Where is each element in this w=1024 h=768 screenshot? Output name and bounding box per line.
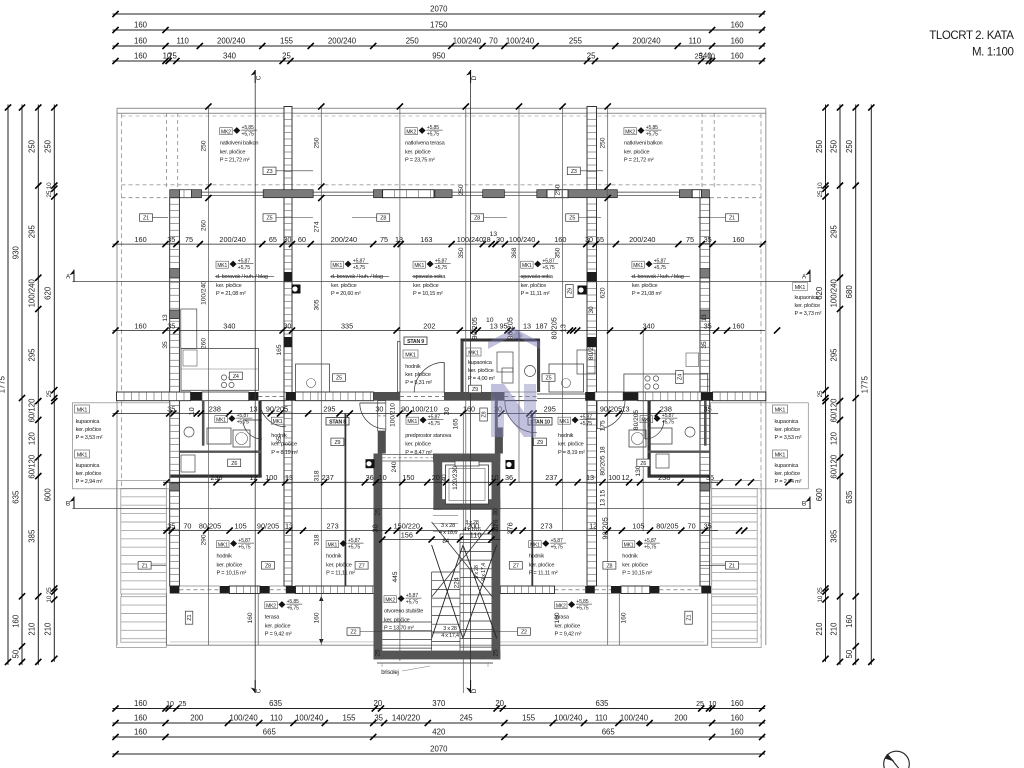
- svg-text:MK1: MK1: [407, 419, 417, 425]
- svg-text:Z1: Z1: [687, 615, 693, 621]
- svg-text:P = 8,19 m²: P = 8,19 m²: [271, 450, 298, 456]
- svg-text:90/205: 90/205: [257, 521, 279, 530]
- svg-text:245: 245: [460, 714, 474, 723]
- svg-text:+5,87: +5,87: [551, 538, 563, 544]
- svg-text:160: 160: [845, 614, 854, 628]
- axis line x608: [605, 103, 611, 645]
- svg-text:100: 100: [265, 473, 277, 482]
- south exterior wall: [170, 586, 711, 594]
- svg-text:+5,75: +5,75: [646, 132, 658, 138]
- svg-text:+5,87: +5,87: [644, 538, 656, 544]
- svg-text:620: 620: [44, 286, 53, 300]
- svg-text:+5,87: +5,87: [237, 413, 249, 419]
- svg-text:160: 160: [134, 714, 148, 723]
- svg-text:160: 160: [731, 714, 745, 723]
- svg-text:370: 370: [432, 699, 446, 708]
- svg-text:295: 295: [323, 404, 335, 413]
- left vertical chain 4 (250,10,25,620...): [44, 104, 58, 662]
- svg-text:MK2: MK2: [406, 129, 416, 135]
- door arc left unit terrace door: [260, 401, 286, 427]
- svg-text:MK1: MK1: [530, 542, 540, 548]
- north arrow symbol: [884, 751, 910, 768]
- svg-text:M. 1:100: M. 1:100: [972, 47, 1014, 59]
- svg-text:35: 35: [167, 404, 175, 413]
- bottom dimension chain row 4 (2070): [112, 745, 765, 758]
- svg-text:kupaonica: kupaonica: [76, 419, 101, 425]
- svg-text:P = 21,08 m²: P = 21,08 m²: [632, 291, 662, 297]
- svg-text:ker. pločice: ker. pločice: [529, 563, 555, 569]
- svg-text:75: 75: [380, 235, 388, 244]
- svg-text:200: 200: [190, 714, 204, 723]
- svg-text:Z1: Z1: [729, 563, 735, 569]
- svg-text:+5,75: +5,75: [287, 606, 299, 612]
- svg-text:ker. pločice: ker. pločice: [775, 471, 801, 477]
- svg-text:255: 255: [569, 37, 583, 46]
- svg-text:165: 165: [276, 344, 283, 355]
- svg-text:250: 250: [313, 137, 320, 148]
- svg-text:202: 202: [423, 321, 435, 330]
- svg-text:ker. pločice: ker. pločice: [331, 283, 357, 289]
- svg-text:290: 290: [201, 534, 208, 545]
- svg-text:160: 160: [134, 37, 148, 46]
- svg-text:250: 250: [555, 184, 562, 195]
- svg-text:C: C: [256, 688, 263, 693]
- svg-text:+5,85: +5,85: [576, 599, 588, 605]
- kitchen counter left unit: [181, 309, 259, 390]
- svg-text:hodnik: hodnik: [217, 554, 233, 560]
- svg-text:120: 120: [829, 431, 838, 445]
- top dimension chain row 3 (window sizes): [112, 37, 765, 50]
- svg-text:155: 155: [280, 37, 294, 46]
- svg-text:+5,87: +5,87: [353, 259, 365, 265]
- svg-text:+5,75: +5,75: [644, 545, 656, 551]
- svg-text:ker. pločice: ker. pločice: [795, 303, 821, 309]
- room label hodnik stan8: [215, 413, 299, 456]
- svg-text:335: 335: [341, 321, 353, 330]
- label STAN 8 box: [326, 418, 349, 426]
- svg-text:P = 13,70 m²: P = 13,70 m²: [384, 625, 414, 631]
- svg-text:163: 163: [420, 235, 432, 244]
- svg-text:260: 260: [201, 220, 208, 231]
- right vertical chain 3 (250,680,635,160,50): [845, 104, 859, 665]
- svg-text:25: 25: [168, 52, 177, 61]
- bedroom partition walls lower: [345, 414, 534, 587]
- svg-text:187: 187: [536, 321, 548, 330]
- axis line x400: [397, 103, 403, 661]
- balcony dashed boundary top-left: [122, 113, 762, 198]
- svg-text:brisolej: brisolej: [381, 670, 398, 676]
- svg-text:Z5: Z5: [267, 216, 273, 222]
- svg-text:Z1: Z1: [142, 563, 148, 569]
- svg-text:Z9: Z9: [568, 288, 574, 294]
- svg-text:200/240: 200/240: [629, 235, 655, 244]
- axis line x466: [463, 103, 469, 530]
- svg-text:160: 160: [134, 21, 148, 30]
- dimension row y244: [112, 231, 765, 247]
- svg-text:+5,75: +5,75: [348, 545, 360, 551]
- svg-text:+5,87: +5,87: [348, 538, 360, 544]
- svg-text:75: 75: [686, 235, 694, 244]
- svg-text:200/240: 200/240: [632, 37, 661, 46]
- room label predprostor: [405, 415, 452, 456]
- svg-text:P = 10,15 m²: P = 10,15 m²: [413, 291, 443, 297]
- svg-text:P = 3,53 m²: P = 3,53 m²: [76, 435, 103, 441]
- svg-text:250: 250: [829, 139, 838, 153]
- svg-text:Z7: Z7: [513, 563, 519, 569]
- svg-text:90: 90: [401, 404, 409, 413]
- svg-text:+5,87: +5,87: [238, 259, 250, 265]
- svg-text:376: 376: [492, 519, 499, 530]
- room label MK2 balcony left: [220, 125, 259, 163]
- label central bath: [466, 348, 495, 382]
- svg-text:250: 250: [600, 137, 607, 148]
- svg-text:+5,75: +5,75: [428, 421, 440, 427]
- svg-text:100/240: 100/240: [295, 714, 324, 723]
- svg-text:50: 50: [11, 649, 20, 658]
- svg-text:368: 368: [511, 247, 518, 258]
- svg-text:+5,75: +5,75: [237, 420, 249, 426]
- svg-text:160: 160: [731, 699, 745, 708]
- svg-text:40: 40: [441, 474, 448, 482]
- svg-text:80/205: 80/205: [633, 410, 640, 431]
- svg-text:ker. pločice: ker. pločice: [76, 471, 102, 477]
- svg-text:MK1: MK1: [775, 453, 786, 459]
- svg-text:10: 10: [490, 473, 498, 482]
- room label stairs: [384, 593, 423, 631]
- svg-text:+5,75: +5,75: [654, 265, 666, 271]
- terrace height dim arrows: [319, 596, 323, 644]
- svg-text:385: 385: [28, 529, 37, 543]
- svg-text:318: 318: [313, 534, 320, 545]
- terrace outline south: [167, 594, 708, 646]
- svg-text:150: 150: [402, 473, 414, 482]
- svg-text:100/240: 100/240: [201, 281, 208, 305]
- dimension row y413: [112, 404, 718, 416]
- bottom dimension chain row 1: [112, 699, 765, 712]
- svg-text:+5,75: +5,75: [662, 420, 674, 426]
- svg-text:+5,75: +5,75: [427, 132, 439, 138]
- svg-text:P = 21,72 m²: P = 21,72 m²: [624, 157, 654, 163]
- svg-text:90/205: 90/205: [600, 404, 622, 413]
- svg-text:10: 10: [187, 407, 196, 415]
- svg-text:ker. pločice: ker. pločice: [413, 283, 439, 289]
- svg-text:ker. pločice: ker. pločice: [405, 150, 431, 156]
- svg-text:600: 600: [815, 488, 824, 502]
- svg-text:35: 35: [162, 341, 169, 349]
- door arc left bath: [243, 420, 262, 439]
- svg-text:250: 250: [28, 139, 37, 153]
- svg-text:100/240: 100/240: [457, 235, 483, 244]
- svg-text:MK1: MK1: [218, 542, 228, 548]
- svg-text:110: 110: [176, 37, 189, 46]
- svg-text:238: 238: [660, 404, 672, 413]
- svg-text:+5,75: +5,75: [542, 265, 554, 271]
- svg-text:160: 160: [554, 235, 566, 244]
- dimension row y530: [163, 517, 747, 539]
- svg-text:d. boravak / kuh. / blag: d. boravak / kuh. / blag: [632, 274, 684, 280]
- svg-text:160: 160: [135, 235, 147, 244]
- svg-text:200/240: 200/240: [219, 235, 245, 244]
- svg-text:160: 160: [731, 52, 745, 61]
- svg-text:100/240: 100/240: [829, 279, 838, 308]
- svg-text:13: 13: [162, 314, 169, 322]
- svg-text:+5,75: +5,75: [580, 421, 592, 427]
- svg-text:Z8: Z8: [380, 216, 386, 222]
- central bathroom fixtures: [497, 350, 595, 383]
- axis line x208: [205, 103, 211, 645]
- svg-text:ker. pločice: ker. pločice: [775, 427, 801, 433]
- room label hodnik s-center-right: [529, 538, 567, 576]
- svg-text:237: 237: [545, 473, 557, 482]
- svg-text:+5,75: +5,75: [238, 265, 250, 271]
- svg-text:295: 295: [28, 348, 37, 362]
- svg-text:MK1: MK1: [273, 419, 283, 425]
- svg-text:160: 160: [313, 612, 320, 623]
- party wall left (ladder): [284, 107, 292, 587]
- svg-text:30: 30: [492, 508, 499, 516]
- svg-text:175: 175: [600, 420, 607, 431]
- svg-text:155: 155: [342, 714, 356, 723]
- door arc right unit door: [597, 401, 625, 429]
- svg-text:B: B: [66, 501, 70, 508]
- svg-text:635: 635: [269, 699, 283, 708]
- svg-text:160: 160: [732, 321, 744, 330]
- svg-text:P = 9,42 m²: P = 9,42 m²: [265, 631, 292, 637]
- svg-text:spavaća soba: spavaća soba: [521, 274, 554, 280]
- svg-text:13: 13: [285, 521, 293, 530]
- svg-text:120/230: 120/230: [452, 466, 459, 490]
- svg-text:25 10: 25 10: [817, 182, 824, 198]
- svg-text:1775: 1775: [861, 375, 870, 393]
- electrical symbol corridor: [366, 459, 375, 468]
- svg-text:ker. pločice: ker. pločice: [216, 283, 242, 289]
- svg-text:50: 50: [845, 649, 854, 658]
- svg-text:445: 445: [392, 571, 399, 582]
- svg-text:13: 13: [490, 231, 498, 238]
- svg-text:238: 238: [209, 404, 221, 413]
- room label hodnik se: [622, 538, 660, 576]
- svg-text:+5,85: +5,85: [646, 125, 658, 131]
- svg-text:MK2: MK2: [221, 129, 231, 135]
- svg-text:30: 30: [371, 524, 380, 532]
- svg-text:Z6: Z6: [231, 461, 237, 467]
- svg-text:ker. pločice: ker. pločice: [326, 563, 352, 569]
- svg-text:13: 13: [249, 404, 257, 413]
- svg-text:+5,87: +5,87: [406, 593, 418, 599]
- svg-text:Z6: Z6: [640, 461, 646, 467]
- svg-text:P = 11,11 m²: P = 11,11 m²: [326, 570, 355, 576]
- svg-text:100/240: 100/240: [554, 714, 583, 723]
- svg-text:420: 420: [432, 728, 446, 737]
- svg-text:160: 160: [247, 612, 254, 623]
- svg-text:Z5: Z5: [546, 376, 552, 382]
- svg-text:260: 260: [201, 338, 208, 349]
- interior partitions left unit: [170, 401, 262, 478]
- svg-text:10: 10: [379, 473, 387, 482]
- stair flight labels: [441, 520, 487, 639]
- svg-text:9 x 17,4: 9 x 17,4: [481, 563, 487, 581]
- svg-text:376: 376: [506, 522, 515, 534]
- room label hodnik sw: [217, 538, 255, 576]
- svg-text:13: 13: [395, 235, 403, 244]
- svg-text:MK1: MK1: [77, 453, 88, 459]
- svg-text:35: 35: [167, 235, 175, 244]
- svg-text:MK1: MK1: [522, 263, 532, 269]
- room label MK2 balcony right: [624, 125, 663, 163]
- bathroom fixtures left unit: [181, 427, 250, 472]
- svg-text:P = 2,94 m²: P = 2,94 m²: [76, 479, 103, 485]
- svg-text:340: 340: [643, 321, 655, 330]
- svg-text:P = 10,15 m²: P = 10,15 m²: [217, 570, 247, 576]
- svg-text:20: 20: [432, 473, 440, 482]
- svg-text:ker. pločice: ker. pločice: [265, 624, 291, 630]
- svg-text:36: 36: [366, 473, 374, 482]
- svg-text:MK1: MK1: [332, 263, 342, 269]
- top dimension chain row 4 (160,10,25,340...): [112, 52, 765, 65]
- label STAN 9 group: [403, 337, 432, 386]
- svg-text:155: 155: [522, 714, 536, 723]
- svg-text:ker. pločice: ker. pločice: [76, 427, 102, 433]
- svg-text:P = 4,00 m²: P = 4,00 m²: [468, 376, 495, 382]
- svg-text:930: 930: [11, 246, 20, 260]
- svg-text:MK1: MK1: [795, 285, 806, 291]
- terrace divider lines: [258, 594, 619, 645]
- svg-text:250: 250: [406, 37, 420, 46]
- svg-text:MK2: MK2: [556, 603, 566, 609]
- svg-text:80/205 18: 80/205 18: [600, 446, 607, 476]
- svg-text:273: 273: [540, 521, 552, 530]
- svg-text:TLOCRT 2. KATA: TLOCRT 2. KATA: [929, 30, 1014, 42]
- svg-text:25: 25: [375, 649, 382, 657]
- svg-text:30: 30: [375, 404, 383, 413]
- section line D-D: [466, 70, 478, 693]
- svg-text:25: 25: [282, 52, 291, 61]
- bathroom fixtures right unit: [629, 427, 695, 468]
- svg-text:318: 318: [313, 470, 320, 481]
- bottom dimension chain row 2: [112, 714, 765, 727]
- svg-text:13: 13: [621, 404, 629, 413]
- axis line x519: [516, 103, 522, 482]
- svg-text:160: 160: [463, 404, 475, 413]
- svg-text:ker. pločice: ker. pločice: [632, 283, 658, 289]
- svg-text:+5,87: +5,87: [662, 413, 674, 419]
- svg-text:10: 10: [707, 54, 715, 61]
- svg-text:160: 160: [731, 37, 745, 46]
- svg-text:100/240: 100/240: [620, 714, 649, 723]
- svg-text:25: 25: [375, 508, 382, 516]
- svg-text:160: 160: [135, 321, 147, 330]
- svg-text:210: 210: [44, 622, 53, 636]
- room label living left: [215, 259, 274, 297]
- svg-text:P = 8,47 m²: P = 8,47 m²: [405, 450, 432, 456]
- brisolej line and label: [377, 663, 493, 676]
- svg-text:P = 21,72 m²: P = 21,72 m²: [220, 157, 250, 163]
- svg-text:4 x 18,6: 4 x 18,6: [439, 530, 457, 536]
- svg-text:250: 250: [44, 139, 53, 153]
- svg-text:+5,85: +5,85: [287, 599, 299, 605]
- electrical symbol right: [578, 286, 587, 295]
- svg-text:110: 110: [595, 714, 608, 723]
- svg-text:MK1: MK1: [633, 263, 643, 269]
- svg-text:100: 100: [608, 473, 620, 482]
- svg-text:Z3: Z3: [571, 169, 577, 175]
- svg-text:160: 160: [134, 52, 148, 61]
- svg-text:12: 12: [249, 473, 257, 482]
- svg-text:65: 65: [269, 235, 277, 244]
- svg-text:ker. pločice: ker. pločice: [405, 372, 431, 378]
- svg-text:3 x 28: 3 x 28: [441, 523, 455, 529]
- room label living center-left: [330, 259, 389, 297]
- svg-text:90/205: 90/205: [266, 404, 288, 413]
- electrical symbol corridor east: [506, 460, 515, 469]
- svg-text:156: 156: [401, 530, 413, 539]
- svg-text:3 x 28: 3 x 28: [443, 626, 457, 632]
- svg-text:MK1: MK1: [327, 542, 337, 548]
- svg-text:D: D: [471, 688, 478, 693]
- room label living right: [631, 259, 690, 297]
- svg-text:P = 3,53 m²: P = 3,53 m²: [775, 435, 802, 441]
- right vertical chain 4 (1775): [861, 104, 875, 665]
- svg-text:100/210: 100/210: [389, 403, 396, 427]
- svg-text:240: 240: [391, 461, 398, 472]
- svg-text:90/205: 90/205: [601, 517, 610, 539]
- svg-text:10: 10: [166, 701, 174, 708]
- svg-text:STAN 8: STAN 8: [329, 420, 346, 426]
- svg-text:274: 274: [313, 221, 320, 232]
- svg-text:250: 250: [845, 139, 854, 153]
- electrical symbol left: [292, 285, 301, 294]
- room label kupaonica margin right top: [793, 283, 822, 318]
- svg-text:terasa: terasa: [265, 615, 280, 621]
- stairwell walls: [374, 454, 501, 660]
- svg-text:210: 210: [815, 622, 824, 636]
- svg-text:MK1: MK1: [414, 263, 424, 269]
- svg-text:hodnik: hodnik: [558, 433, 574, 439]
- svg-text:P = 10,15 m²: P = 10,15 m²: [622, 570, 652, 576]
- top dimension chain row 1 (2070): [112, 5, 765, 18]
- svg-text:ker. pločice: ker. pločice: [271, 442, 297, 448]
- svg-text:kupaonica: kupaonica: [775, 463, 800, 469]
- svg-text:+5,75: +5,75: [406, 600, 418, 606]
- room label hodnik stan10: [558, 415, 596, 456]
- door arc unit 9 entrance: [414, 362, 444, 392]
- svg-text:Z5: Z5: [336, 376, 342, 382]
- svg-text:9 x 28: 9 x 28: [474, 565, 480, 579]
- label STAN 10 box: [528, 418, 552, 426]
- svg-text:C: C: [256, 75, 263, 80]
- left vertical chain 1 (1775): [0, 104, 11, 665]
- svg-text:P = 20,60 m²: P = 20,60 m²: [331, 291, 361, 297]
- svg-text:+5,87: +5,87: [428, 415, 440, 421]
- svg-text:20: 20: [374, 699, 383, 708]
- svg-text:30: 30: [585, 235, 593, 244]
- svg-text:160: 160: [11, 614, 20, 628]
- svg-text:140/220: 140/220: [392, 714, 421, 723]
- svg-text:+5,85: +5,85: [242, 125, 254, 131]
- svg-text:Z8: Z8: [265, 563, 271, 569]
- svg-text:13: 13: [285, 473, 293, 482]
- svg-text:MK1: MK1: [641, 417, 651, 423]
- svg-text:160: 160: [731, 728, 745, 737]
- svg-text:D: D: [471, 75, 478, 80]
- svg-text:P = 8,19 m²: P = 8,19 m²: [558, 450, 585, 456]
- svg-text:MK1: MK1: [624, 542, 634, 548]
- svg-text:hodnik: hodnik: [405, 364, 421, 370]
- svg-text:spavaća soba: spavaća soba: [413, 274, 446, 280]
- svg-text:665: 665: [602, 728, 616, 737]
- svg-text:100/210: 100/210: [411, 404, 437, 413]
- svg-text:160: 160: [731, 21, 745, 30]
